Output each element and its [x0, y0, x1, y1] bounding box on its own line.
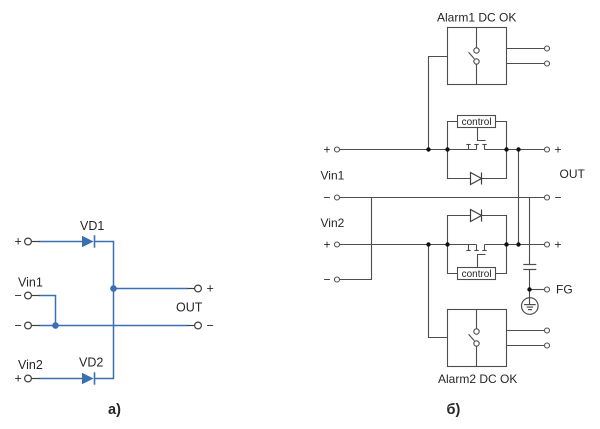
wire FG node to earth: [529, 290, 531, 298]
svg-text:Vin2: Vin2: [18, 358, 43, 372]
wire Vin2+ to VD2: [39, 378, 82, 380]
svg-text:Alarm2 DC OK: Alarm2 DC OK: [438, 372, 517, 386]
diode VD1: [82, 235, 95, 247]
wire Alarm2 feed: [429, 245, 448, 338]
wire Vin1 + rail (right of mosfet): [485, 149, 545, 151]
terminal FG: [545, 287, 550, 292]
node junction dot (OUT+ tap): [110, 285, 117, 292]
terminal Vin2 + (right circuit): [335, 242, 340, 247]
node dot rail1-bracket-left: [445, 147, 449, 151]
svg-text:−: −: [15, 289, 22, 303]
relay K1 (Alarm1 DC OK contact box): [448, 28, 545, 85]
transistor Q2 (mosfet in + rail): [466, 245, 486, 268]
transistor Q1 (mosfet in + rail): [466, 128, 486, 150]
wire vertical diode-OR output bus: [113, 241, 115, 379]
terminal Alarm2 contact a: [545, 328, 550, 333]
svg-text:Vin1: Vin1: [18, 275, 43, 289]
svg-text:VD1: VD1: [80, 219, 104, 233]
node dot rail1-alarm1: [426, 147, 430, 151]
wire Alarm1 feed: [429, 57, 448, 150]
wire terminal leads (gray stubs, left circuit): [31, 242, 194, 379]
terminal OUT + bottom: [545, 242, 550, 247]
svg-text:+: +: [15, 372, 22, 386]
svg-text:+: +: [324, 238, 331, 252]
wire Vin2 + rail (right of mosfet): [485, 244, 545, 246]
wire VD1 cathode to corner: [95, 241, 114, 243]
wire OUT - rail: [340, 197, 545, 199]
relay K2 (Alarm2 DC OK contact box): [448, 310, 545, 367]
diode VD2: [82, 372, 95, 384]
control box U2: [458, 268, 496, 280]
capacitor C (Y-cap to FG): [523, 265, 536, 270]
svg-text:−: −: [207, 319, 214, 333]
svg-text:+: +: [555, 238, 562, 252]
module M1 (Vin1 power module bracket): [448, 122, 507, 179]
ground (protective earth FG): [522, 298, 539, 315]
svg-text:б): б): [447, 402, 461, 418]
svg-text:+: +: [15, 235, 22, 249]
wire OUT- down to Y-capacitor: [529, 198, 531, 265]
svg-text:−: −: [324, 191, 331, 205]
wire Vin2 - lead up to OUT - rail: [340, 198, 372, 280]
node junction dot (Vin1-/Vin2- tie): [52, 322, 59, 329]
node dot FG: [527, 287, 531, 291]
terminal Vin2 - (right circuit): [335, 277, 340, 282]
wire Vin1 + rail (left of mosfet): [340, 149, 477, 151]
terminal OUT +: [195, 285, 202, 292]
wire negative rail to OUT-: [39, 325, 188, 327]
svg-text:+: +: [207, 282, 214, 296]
svg-text:VD2: VD2: [79, 355, 103, 369]
terminal common -: [25, 322, 32, 329]
terminal Alarm2 contact b: [545, 343, 550, 348]
svg-text:+: +: [324, 143, 331, 157]
svg-text:−: −: [555, 191, 562, 205]
terminal Alarm1 contact b: [545, 61, 550, 66]
diode D2 (module 2 bypass): [471, 210, 482, 222]
node dot rail1-bracket-right: [504, 147, 508, 151]
svg-text:OUT: OUT: [176, 301, 203, 315]
terminal Vin1 +: [25, 238, 32, 245]
terminal Vin2 +: [25, 375, 32, 382]
wire Vin1- to elbow: [39, 296, 56, 326]
wire OUT+ branch: [114, 288, 189, 290]
wire capacitor to FG node: [529, 270, 531, 290]
svg-text:−: −: [15, 319, 22, 333]
node dot rail1-parallel-bus: [516, 147, 520, 151]
svg-text:Alarm1 DC OK: Alarm1 DC OK: [437, 11, 516, 25]
svg-text:Vin2: Vin2: [321, 216, 345, 230]
terminal Alarm1 contact a: [545, 46, 550, 51]
node dot rail2-alarm2: [426, 242, 430, 246]
terminal OUT + top: [545, 147, 550, 152]
terminal OUT -: [545, 195, 550, 200]
svg-text:control: control: [462, 269, 492, 280]
module M2 (Vin2 power module bracket): [448, 216, 507, 274]
wire paralleling bus (+ to +): [518, 150, 520, 245]
wire Vin2 + rail (left of mosfet): [340, 244, 477, 246]
terminal Vin1 - (right circuit): [335, 195, 340, 200]
node dot rail2-parallel-bus: [516, 242, 520, 246]
wire Vin1+ to VD1: [39, 241, 82, 243]
wire FG node to terminal: [530, 289, 545, 291]
svg-text:FG: FG: [556, 282, 573, 296]
wire VD2 cathode to vertical bus: [95, 378, 114, 380]
terminal Vin1 + (right circuit): [335, 147, 340, 152]
svg-text:−: −: [324, 273, 331, 287]
node dot rail2-bracket-left: [445, 242, 449, 246]
svg-text:Vin1: Vin1: [321, 169, 345, 183]
svg-text:control: control: [462, 117, 492, 128]
terminal Vin1 -: [25, 292, 32, 299]
diode D1 (module 1 bypass): [471, 173, 482, 185]
control box U1: [458, 116, 496, 128]
svg-text:+: +: [555, 143, 562, 157]
svg-text:OUT: OUT: [560, 167, 586, 181]
terminal OUT -: [195, 322, 202, 329]
svg-text:a): a): [108, 402, 121, 418]
node dot rail2-bracket-right: [504, 242, 508, 246]
